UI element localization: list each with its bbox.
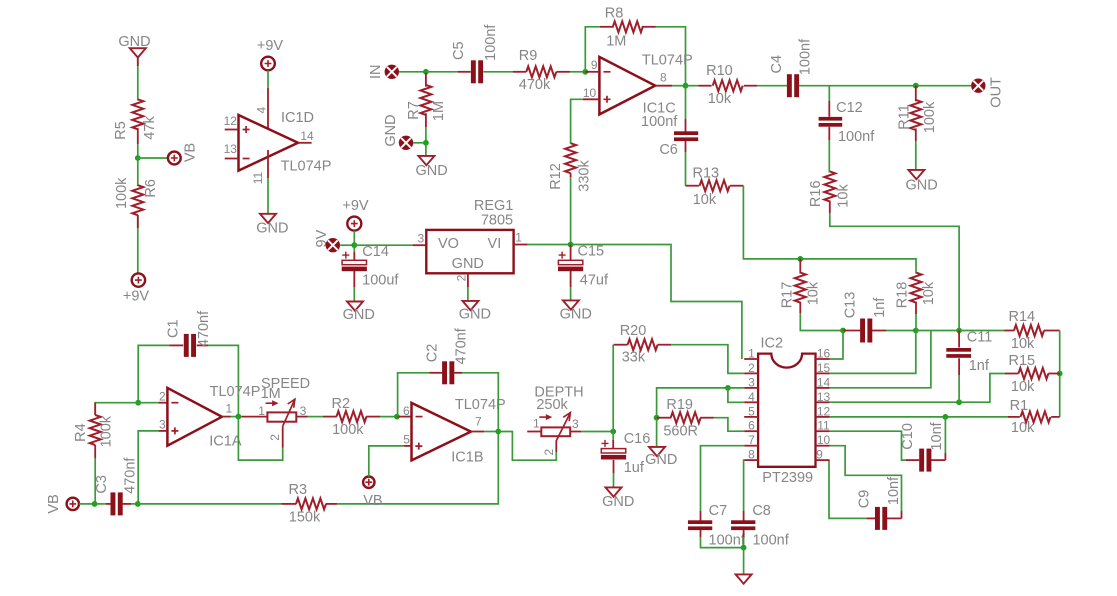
wire R19 to IC2 pin 6: [714, 418, 744, 432]
svg-text:100k: 100k: [332, 422, 364, 438]
wire C16 to ground: [613, 460, 615, 488]
capacitor C13: [842, 292, 888, 343]
ground (input network): [415, 156, 447, 179]
wire GND to R5: [137, 58, 139, 101]
svg-text:150k: 150k: [289, 510, 321, 526]
IC1D pin 4 number: [255, 107, 269, 114]
svg-text:47uf: 47uf: [580, 273, 609, 289]
resistor R10: [706, 63, 757, 107]
svg-text:100k: 100k: [114, 177, 130, 209]
wire REG1 pin 1 to C15 junction: [528, 244, 571, 246]
resistor R20: [620, 323, 672, 365]
wire R8 to IC1C output: [656, 27, 686, 86]
svg-text:15: 15: [817, 361, 831, 375]
svg-text:4: 4: [748, 390, 755, 404]
svg-text:R13: R13: [692, 166, 719, 182]
svg-text:R9: R9: [519, 48, 538, 64]
svg-text:10: 10: [583, 86, 597, 100]
wire pin 10 to C9 right: [830, 446, 902, 519]
wire R12 to C15 junction: [570, 177, 572, 244]
svg-text:IC1B: IC1B: [451, 450, 483, 466]
ground (R19): [645, 447, 677, 468]
resistor R19: [657, 397, 714, 440]
svg-text:+9V: +9V: [257, 38, 284, 54]
svg-text:330k: 330k: [576, 160, 592, 192]
IC1C minus sign: [604, 71, 611, 73]
svg-text:12: 12: [817, 404, 831, 418]
IC1C pin 8 output stub: [655, 71, 672, 86]
wire R11 to ground: [915, 141, 917, 170]
svg-text:6: 6: [748, 419, 755, 433]
wire junction to R15: [959, 374, 1018, 403]
svg-text:R17: R17: [779, 282, 795, 309]
node junction C11 bottom/pin13: [956, 399, 962, 405]
IC1C pin 9 stub: [585, 58, 599, 72]
node junction C7/C8 ground: [741, 545, 747, 551]
svg-text:7: 7: [748, 433, 755, 447]
capacitor C7: [688, 503, 746, 548]
wire junction to pin 3: [728, 387, 744, 389]
svg-text:VO: VO: [438, 236, 459, 252]
svg-text:GND: GND: [256, 220, 288, 236]
resistor R16: [808, 171, 852, 207]
supply +9V (above IC1D): [257, 38, 284, 70]
node junction C11 top: [956, 328, 962, 334]
svg-text:100uf: 100uf: [362, 272, 399, 288]
svg-text:2: 2: [268, 434, 282, 441]
IC1A plus sign: [171, 427, 178, 434]
supply +9V (bottom of R5/R6 divider): [123, 273, 150, 304]
pad OUT: [971, 77, 1004, 108]
wire C8 to GND junction: [743, 530, 745, 548]
wire rail to R18: [800, 259, 916, 274]
ground (R11): [905, 170, 937, 193]
IC1A minus sign: [171, 402, 178, 404]
wire 9V pad to junction: [340, 244, 354, 246]
wire R16 down and right: [830, 201, 959, 331]
capacitor C3: [94, 457, 138, 516]
svg-text:R3: R3: [289, 482, 308, 498]
node junction R19/GND: [654, 415, 660, 421]
svg-text:7805: 7805: [481, 212, 513, 228]
capacitor C9: [856, 476, 902, 530]
svg-text:R15: R15: [1008, 353, 1035, 369]
resistor R12: [548, 143, 592, 192]
wire R20 to IC2 pin 2: [671, 345, 744, 374]
IC1D pin 12 stub: [224, 114, 239, 129]
node junction C13/pin16: [840, 328, 846, 334]
wire junction to R6: [137, 158, 139, 186]
IC1B minus sign: [416, 416, 423, 418]
node junction IN/R7/C5: [423, 69, 429, 75]
svg-text:470k: 470k: [519, 77, 551, 93]
svg-text:R20: R20: [620, 323, 647, 339]
svg-text:6: 6: [403, 404, 410, 418]
svg-text:100nf: 100nf: [641, 114, 678, 130]
resistor R17: [779, 259, 821, 308]
svg-text:5: 5: [403, 433, 410, 447]
op-amp IC1C: [599, 57, 655, 115]
svg-text:+9V: +9V: [342, 198, 369, 214]
svg-text:13: 13: [224, 142, 238, 156]
svg-text:2: 2: [159, 390, 166, 404]
IC1A pin 1 output stub: [222, 401, 233, 416]
wire VB pad to R4 junction: [79, 503, 95, 505]
svg-text:1nf: 1nf: [872, 297, 888, 318]
svg-text:3: 3: [748, 375, 755, 389]
wire R3 to IC1B output node: [337, 432, 498, 504]
node junction DEPTH/C16/R20: [610, 429, 616, 435]
resistor R2: [332, 396, 380, 438]
svg-text:2: 2: [454, 274, 468, 281]
svg-text:GND: GND: [905, 177, 937, 193]
capacitor C2: [425, 327, 470, 384]
svg-text:8: 8: [748, 448, 755, 462]
svg-text:C10: C10: [900, 423, 916, 450]
node junction R4/VB rail: [92, 501, 98, 507]
capacitor C16: [601, 431, 650, 476]
wire C4 to OUT: [799, 85, 971, 87]
capacitor C4: [769, 38, 814, 97]
wire pin 14 up to rail: [830, 331, 931, 388]
svg-text:100nf: 100nf: [838, 129, 875, 145]
IC1B pin 5 stub: [403, 433, 411, 447]
wire junction down to C10: [931, 417, 945, 460]
wire R17 to C13 rail: [800, 302, 843, 331]
svg-text:10nf: 10nf: [929, 421, 945, 450]
svg-text:C11: C11: [967, 330, 993, 346]
node junction 9V/C14/REG1: [351, 242, 357, 248]
node junction R5/R6/VB: [135, 155, 141, 161]
IC1D plus sign: [243, 126, 250, 133]
wire output to DEPTH wiper jog: [498, 432, 556, 461]
svg-text:1: 1: [748, 347, 755, 361]
svg-text:11: 11: [817, 419, 830, 433]
SPEED pin 3 lead: [296, 416, 307, 418]
svg-text:47k: 47k: [142, 116, 158, 140]
svg-text:R16: R16: [808, 180, 824, 207]
svg-text:C3: C3: [94, 475, 110, 494]
svg-text:1M: 1M: [431, 101, 447, 121]
wire junction to C6: [685, 86, 687, 132]
wire pin 7 to junction: [484, 431, 498, 433]
wire IC1D pin 11 to GND: [267, 150, 269, 214]
svg-text:R14: R14: [1008, 309, 1035, 325]
wire pin 7 to C7: [701, 446, 745, 521]
resistor R18: [895, 273, 937, 309]
svg-text:TL074P: TL074P: [210, 384, 261, 400]
wire junction to R3: [138, 503, 296, 505]
svg-text:OUT: OUT: [988, 77, 1004, 108]
wire R7 to GND junction: [425, 127, 427, 143]
wire pin 12 rail: [830, 416, 1020, 418]
svg-text:5: 5: [748, 404, 755, 418]
svg-text:8: 8: [660, 71, 667, 85]
power flag GND (top left): [118, 34, 150, 58]
ground (C15): [560, 300, 592, 322]
IC1D pin 13 stub: [224, 142, 239, 158]
svg-text:14: 14: [300, 129, 314, 143]
op-amp IC1D: [239, 115, 299, 171]
svg-text:R10: R10: [706, 63, 733, 79]
svg-text:1uf: 1uf: [624, 460, 645, 476]
svg-text:9: 9: [816, 448, 823, 462]
wire junction to R14: [959, 330, 1014, 332]
wire pin 11 to C10: [830, 431, 920, 460]
svg-text:10k: 10k: [693, 192, 717, 208]
svg-text:R7: R7: [406, 101, 422, 120]
svg-text:C15: C15: [577, 244, 604, 260]
svg-text:IC1A: IC1A: [209, 433, 242, 449]
wire pin 13 to C11 bottom junction: [830, 401, 960, 403]
wire C1 left to inverting node: [138, 345, 169, 402]
capacitor C15: [558, 244, 609, 289]
wire output to junction: [231, 416, 239, 418]
svg-text:GND: GND: [415, 163, 447, 179]
wire junction to pin 4: [728, 388, 744, 402]
svg-text:C1: C1: [166, 319, 182, 338]
svg-text:10k: 10k: [1011, 420, 1035, 436]
svg-text:1nf: 1nf: [969, 358, 990, 374]
wire R2 to pin 6 junction: [380, 416, 397, 418]
svg-text:C5: C5: [451, 41, 467, 60]
ground (C14): [343, 302, 375, 324]
node junction R15 right: [1057, 371, 1063, 377]
svg-text:IC1D: IC1D: [281, 110, 314, 126]
svg-text:10k: 10k: [708, 91, 732, 107]
node junction C15/5V: [568, 242, 574, 248]
wire IC1C pin10 to R12: [571, 99, 583, 143]
resistor R6: [114, 177, 159, 215]
IC IC2 PT2399: [744, 335, 830, 486]
wire junction to REG1 pin 3: [354, 244, 426, 246]
resistor R11: [896, 86, 938, 141]
svg-text:GND: GND: [645, 452, 677, 468]
wire C13 to R18 junction: [886, 330, 916, 332]
svg-text:470nf: 470nf: [196, 310, 212, 347]
wire VB to IC1B pin 5: [369, 446, 404, 477]
svg-text:250k: 250k: [536, 397, 568, 413]
resistor R3: [289, 482, 338, 526]
wire +9V to 9V junction: [353, 231, 355, 246]
svg-text:33k: 33k: [622, 349, 646, 365]
wire pin 3 to VB rail: [138, 431, 158, 504]
wire junction up to pin3 rail: [657, 388, 728, 418]
svg-text:C6: C6: [659, 142, 678, 158]
IC1A labels: [209, 384, 260, 449]
svg-text:TL074P: TL074P: [642, 52, 693, 68]
svg-text:1: 1: [226, 401, 233, 415]
svg-text:11: 11: [251, 171, 265, 184]
wire pin 8 to C8: [743, 460, 746, 520]
wire C6 to R13: [685, 141, 687, 186]
node junction R9/R8/pin9: [582, 69, 588, 75]
node junction R11/OUT: [913, 83, 919, 89]
wire R6 to +9V: [137, 215, 139, 273]
wire SPEED to R2: [308, 416, 337, 418]
ground (C16): [602, 487, 634, 510]
svg-text:1: 1: [533, 417, 540, 431]
svg-text:GND: GND: [560, 307, 592, 323]
svg-text:100nf: 100nf: [483, 24, 499, 61]
svg-text:R19: R19: [666, 397, 693, 413]
svg-text:470nf: 470nf: [453, 327, 469, 364]
op-amp IC1A: [167, 388, 222, 446]
svg-text:C14: C14: [362, 244, 389, 260]
wire output to wiper jog: [238, 417, 282, 461]
wire junction to VB supply: [138, 157, 168, 159]
resistor R1: [1010, 398, 1060, 436]
capacitor C10: [900, 421, 945, 471]
wire +9V to IC1D pin 4: [267, 70, 269, 135]
IC1B labels: [451, 397, 505, 466]
trimmer SPEED: [258, 376, 310, 441]
IC1D labels: [281, 110, 332, 174]
svg-text:R5: R5: [113, 121, 129, 140]
node junction C10/pin12: [943, 414, 949, 420]
node junction R7/GND pad: [423, 140, 429, 146]
svg-text:100nf: 100nf: [709, 532, 746, 548]
resistor R15: [1008, 353, 1059, 395]
voltage regulator REG1 7805: [426, 198, 513, 273]
svg-text:100nf: 100nf: [798, 38, 814, 75]
wire R9 to IC1C junction: [570, 71, 585, 73]
node junction IC1A inverting: [135, 400, 141, 406]
ground (C7/C8): [736, 574, 752, 583]
ground IC1D: [256, 214, 288, 237]
svg-text:R4: R4: [73, 423, 89, 442]
IC1A pin 3 stub: [159, 418, 168, 432]
svg-text:C9: C9: [856, 490, 872, 509]
supply VB (top left): [168, 143, 199, 165]
IC1B plus sign: [415, 443, 422, 450]
capacitor C5: [451, 24, 499, 84]
svg-text:R8: R8: [605, 6, 624, 22]
svg-text:470nf: 470nf: [122, 457, 138, 494]
svg-text:VB: VB: [183, 143, 199, 162]
svg-text:R18: R18: [895, 282, 911, 309]
node junction R18/pin15: [913, 328, 919, 334]
svg-text:10: 10: [817, 433, 831, 447]
pad IN: [368, 65, 399, 80]
svg-text:C12: C12: [836, 100, 863, 116]
node junction IC1A output: [236, 414, 242, 420]
wire junction to ground: [743, 548, 745, 575]
capacitor C12: [819, 100, 876, 145]
capacitor C14: [342, 244, 400, 288]
DEPTH wiper lead: [555, 441, 557, 453]
wire right bus R14-R15-R1: [1059, 331, 1061, 417]
wire C14 to ground: [353, 271, 355, 302]
capacitor C6: [641, 114, 698, 158]
svg-text:R6: R6: [143, 179, 159, 198]
svg-text:TL074P: TL074P: [281, 158, 332, 174]
wire IN pad to junction: [399, 71, 426, 73]
wire pin 16 to C13 junction: [830, 331, 844, 360]
SPEED pin 1 lead: [241, 416, 267, 418]
wire C2 right to output junction: [462, 373, 498, 432]
wire R4 to VB rail: [94, 458, 96, 504]
svg-text:10nf: 10nf: [886, 476, 902, 505]
svg-text:R11: R11: [896, 104, 912, 130]
svg-text:7: 7: [475, 415, 482, 429]
wire GND pad to junction: [413, 142, 426, 144]
wire R13 down to rail: [743, 186, 800, 259]
pad GND (input): [383, 114, 413, 150]
svg-text:3: 3: [159, 418, 166, 432]
svg-text:GND: GND: [459, 306, 491, 322]
svg-text:GND: GND: [602, 494, 634, 510]
IC1C labels: [642, 52, 693, 116]
wire C12 to R16: [828, 127, 830, 173]
svg-text:10k: 10k: [921, 281, 937, 305]
IC1C plus sign: [604, 96, 611, 103]
wire junction to R4: [95, 403, 138, 415]
svg-text:1M: 1M: [261, 386, 281, 402]
svg-text:10k: 10k: [806, 281, 822, 305]
wire DEPTH pin 3 to C16 junction: [581, 431, 613, 433]
pad 9V: [314, 229, 340, 252]
wire pin 15 to R18 junction: [830, 331, 916, 374]
wire C2 left to pin 6 junction: [398, 373, 430, 417]
svg-text:R2: R2: [332, 396, 351, 412]
wire R19 junction to ground: [656, 418, 658, 447]
wire junction to pin 2: [138, 402, 167, 404]
svg-text:C16: C16: [624, 431, 651, 447]
svg-text:C2: C2: [425, 344, 441, 363]
svg-text:PT2399: PT2399: [762, 470, 813, 486]
svg-text:IN: IN: [368, 65, 384, 80]
ground (REG1): [459, 301, 491, 322]
IC1B pin 7 output stub: [471, 415, 484, 432]
node junction R17 top: [797, 256, 803, 262]
IC1D minus sign: [243, 158, 250, 160]
wire junction to R10: [686, 85, 712, 87]
wire R18 bottom: [915, 302, 917, 331]
svg-text:13: 13: [817, 390, 831, 404]
resistor R13: [686, 166, 744, 208]
node junction C3/pin3/R3: [135, 501, 141, 507]
wire REG1 pin 2 to ground: [467, 287, 469, 301]
capacitor C1: [166, 310, 213, 357]
svg-text:100k: 100k: [99, 415, 115, 447]
wire C7 to GND junction: [701, 530, 744, 548]
resistor R5: [113, 99, 158, 144]
wire junction to C3: [95, 503, 113, 505]
node junction R2/C2/pin6: [394, 414, 400, 420]
svg-text:9: 9: [591, 58, 598, 72]
DEPTH pin 3 lead: [570, 431, 581, 433]
wire junction to C5: [426, 71, 471, 73]
svg-text:GND: GND: [452, 256, 484, 272]
svg-text:GND: GND: [383, 114, 399, 146]
svg-text:R1: R1: [1010, 398, 1029, 414]
svg-text:C13: C13: [842, 292, 858, 319]
svg-text:GND: GND: [343, 307, 375, 323]
capacitor C11: [946, 330, 992, 403]
resistor R8: [605, 6, 656, 50]
svg-text:1M: 1M: [606, 34, 626, 50]
IC1B pin 6 stub: [397, 404, 412, 418]
resistor R7: [406, 73, 447, 127]
wire junction to ground: [425, 143, 427, 156]
node junction IC1C output: [683, 83, 689, 89]
node junction pin3/pin4: [725, 385, 731, 391]
svg-text:VB: VB: [46, 494, 62, 513]
svg-text:14: 14: [817, 375, 831, 389]
wire C1 right to output node: [208, 345, 238, 416]
svg-text:GND: GND: [118, 34, 150, 50]
